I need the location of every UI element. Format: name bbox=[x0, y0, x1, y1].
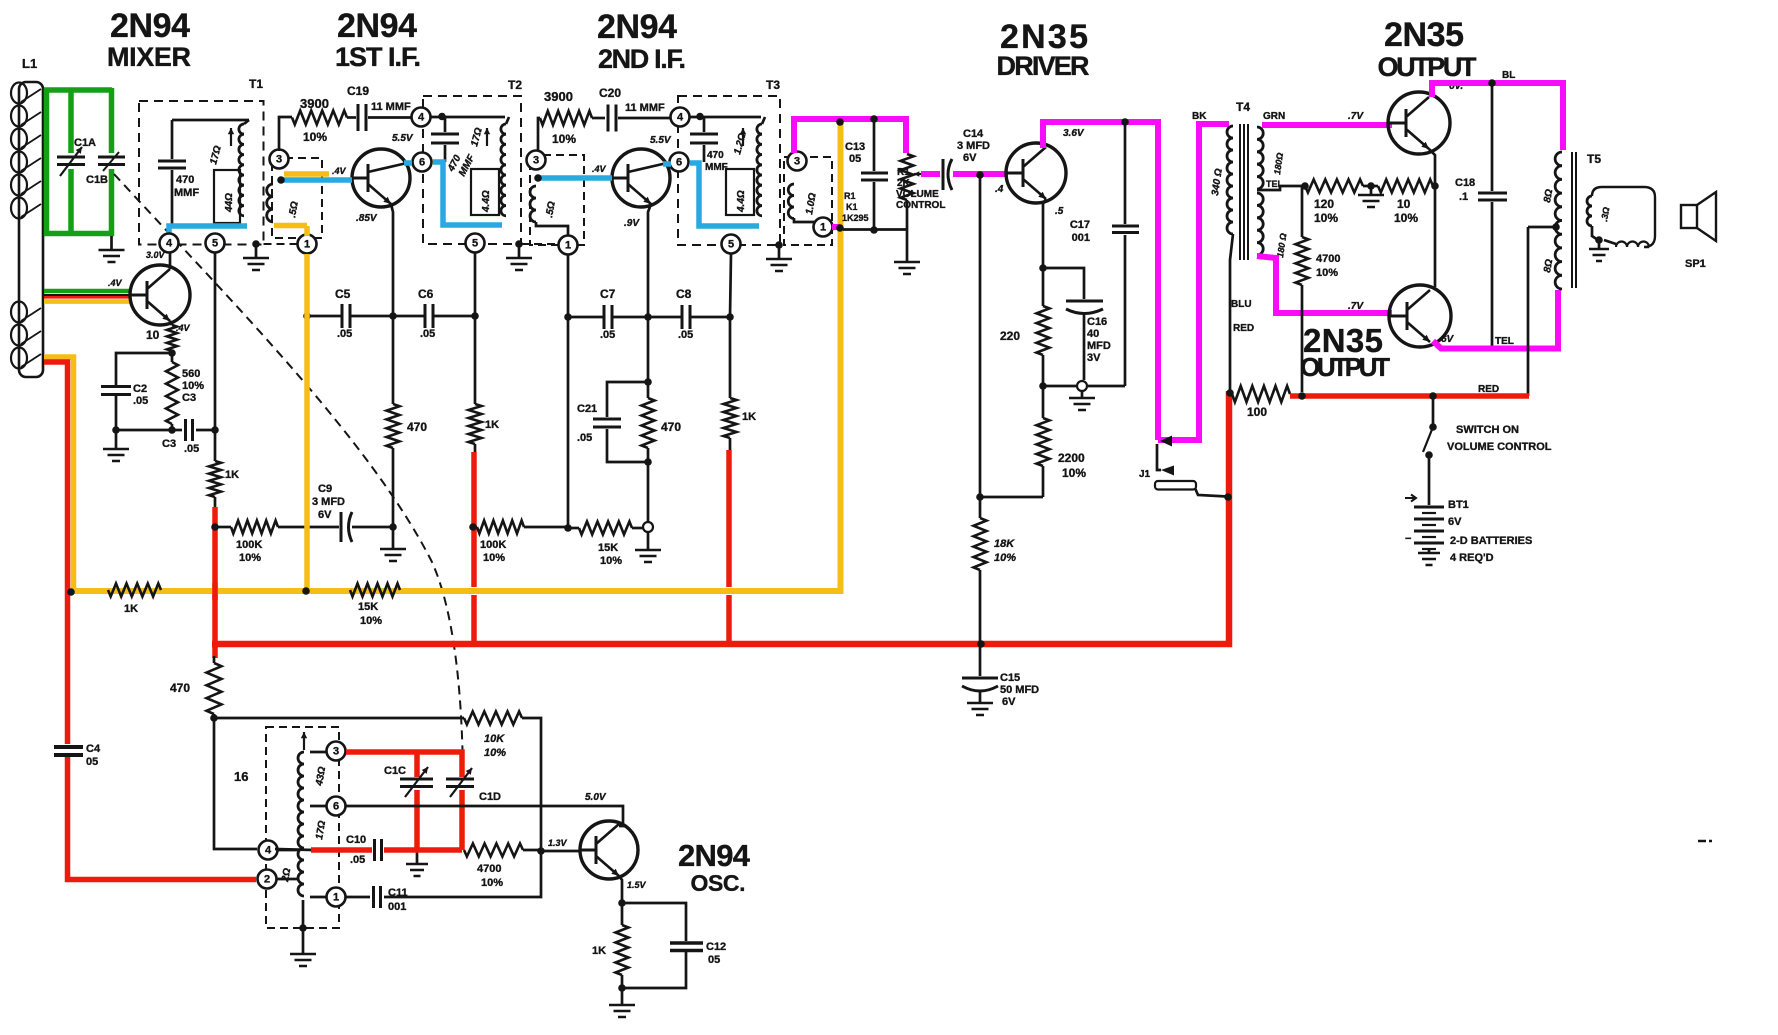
label 120 10% bbox=[1314, 197, 1338, 225]
svg-text:3.0V: 3.0V bbox=[146, 250, 166, 260]
label 17Ω (T1 primary) bbox=[208, 144, 224, 165]
label BT1 6V 2-D BATTERIES 4 REQD bbox=[1448, 499, 1532, 564]
svg-text:10%: 10% bbox=[484, 747, 506, 759]
label 2N94 1ST I.F. stage title bbox=[335, 7, 421, 72]
wire C13 top lead bbox=[873, 121, 876, 171]
label 5.0V (osc) bbox=[585, 792, 607, 803]
wire 18K to red bus bbox=[979, 570, 982, 644]
wire blue 1st IF collector to T2 bbox=[433, 162, 502, 225]
capacitor C20 11MMF bbox=[592, 105, 671, 132]
svg-text:15K: 15K bbox=[598, 542, 618, 554]
node jack/B- junction bbox=[1224, 493, 1232, 501]
svg-text:3 MFD: 3 MFD bbox=[312, 496, 345, 508]
wire red mid vertical over yellow bbox=[212, 583, 218, 600]
stray scan mark bbox=[1698, 840, 1712, 843]
node 560 bottom bbox=[168, 426, 176, 434]
node C2 bottom bbox=[112, 426, 120, 434]
svg-text:C3: C3 bbox=[182, 392, 196, 404]
wire red C1C lower lead bbox=[414, 790, 420, 850]
wire 2200 to base column bbox=[980, 496, 1043, 499]
wire coil bottom to shield bbox=[302, 900, 305, 953]
label 16 (osc coil) bbox=[234, 769, 248, 784]
svg-text:10%: 10% bbox=[994, 552, 1016, 564]
label C10 .05 bbox=[346, 834, 366, 866]
label 100K 10% bbox=[236, 539, 262, 564]
label 470 MMF (T1) bbox=[174, 174, 199, 199]
label T2 bbox=[508, 78, 522, 92]
svg-text:MMF: MMF bbox=[174, 187, 199, 199]
node C21 top junction bbox=[644, 378, 652, 386]
node C9/470/ground junction bbox=[389, 523, 397, 531]
node 120 left bbox=[1301, 182, 1309, 190]
jack J1 body bbox=[1155, 481, 1196, 490]
svg-text:OUTPUT: OUTPUT bbox=[1300, 352, 1390, 382]
svg-text:560: 560 bbox=[182, 368, 200, 380]
label 1.0Ω (T3 secondary) bbox=[804, 192, 819, 215]
wire 1K to red bbox=[474, 444, 477, 455]
node yellow bus left bbox=[67, 588, 75, 596]
label 15K 10% (2nd) bbox=[598, 542, 622, 567]
svg-text:2Ω: 2Ω bbox=[280, 867, 293, 883]
label 1K (mixer) bbox=[225, 469, 239, 481]
wire 1K bottom bbox=[621, 975, 624, 1004]
transistor Q3 2N94 2nd IF bbox=[612, 149, 670, 207]
svg-text:3: 3 bbox=[276, 154, 282, 166]
label C3 .05 bbox=[162, 438, 199, 455]
svg-text:470: 470 bbox=[661, 420, 681, 434]
label + battery bbox=[1405, 495, 1416, 502]
resistor 100K (2nd IF bias) bbox=[473, 521, 568, 534]
resistor 3900 (1st IF) bbox=[279, 111, 347, 152]
label C18 .1 bbox=[1455, 177, 1475, 203]
svg-text:1.2Ω: 1.2Ω bbox=[732, 132, 748, 156]
label C2 .05 bbox=[133, 383, 148, 407]
svg-text:120: 120 bbox=[1314, 197, 1334, 211]
svg-text:1.5V: 1.5V bbox=[627, 880, 647, 890]
node C18 top bbox=[1488, 79, 1496, 87]
label 2N94 MIXER stage title bbox=[107, 7, 194, 72]
capacitor C16 40MFD bbox=[1043, 268, 1103, 380]
svg-text:.3Ω: .3Ω bbox=[1599, 206, 1611, 222]
node osc emitter bbox=[618, 899, 626, 907]
label 470 (1st IF) bbox=[407, 420, 427, 434]
svg-text:.9V: .9V bbox=[624, 218, 640, 229]
label 2N94 2ND I.F. stage title bbox=[597, 8, 686, 74]
svg-text:J1: J1 bbox=[1139, 469, 1151, 480]
wire red stub below bus corner bbox=[212, 644, 218, 658]
node C6 right bbox=[471, 312, 479, 320]
resistor 10 10% bbox=[1363, 180, 1433, 193]
resistor 470 (osc feed) bbox=[207, 656, 222, 714]
wire driver emitter column bbox=[1043, 199, 1046, 306]
svg-text:4.4Ω: 4.4Ω bbox=[736, 190, 747, 213]
wire 100K to C9 bbox=[278, 526, 339, 529]
wire emitter to 470 par C21 bbox=[647, 317, 650, 398]
node osc base bbox=[537, 847, 545, 855]
label 18K 10% bbox=[994, 538, 1016, 564]
svg-text:5: 5 bbox=[472, 238, 478, 250]
label C1A bbox=[74, 137, 96, 149]
pin 6 of T3 bbox=[670, 153, 689, 172]
label 8Ω lower (T5) bbox=[1542, 258, 1555, 273]
svg-text:.7V: .7V bbox=[1348, 301, 1364, 312]
wire osc emitter bbox=[619, 876, 622, 925]
pin 6 of T2 bbox=[413, 153, 432, 172]
svg-text:.05: .05 bbox=[337, 328, 352, 340]
svg-text:R1: R1 bbox=[897, 167, 910, 178]
transformer T2 dashed box bbox=[423, 96, 521, 244]
capacitor C18 .1 bbox=[1478, 83, 1507, 346]
T1 secondary box bbox=[214, 170, 240, 223]
capacitor C19 11MMF bbox=[347, 104, 412, 131]
svg-text:3: 3 bbox=[794, 156, 800, 168]
svg-text:.4V: .4V bbox=[592, 164, 607, 174]
label 1.5V (osc emitter) bbox=[627, 880, 647, 890]
svg-text:6V: 6V bbox=[318, 509, 332, 521]
node 220 bottom bbox=[1039, 382, 1047, 390]
label 4.4Ω (T3 secondary) bbox=[736, 190, 747, 213]
label 470 (osc feed) bbox=[170, 681, 190, 695]
wire magenta Q6 collector rail bbox=[1432, 83, 1563, 150]
wire osc base bbox=[541, 850, 580, 853]
label .4V (2nd IF base) bbox=[592, 164, 607, 174]
wire Q6/Q7 collector link bbox=[1434, 186, 1437, 287]
svg-text:5: 5 bbox=[728, 239, 734, 251]
battery BT1 bbox=[1414, 507, 1444, 549]
terminal C16 open circle bbox=[1077, 381, 1087, 391]
svg-text:C8: C8 bbox=[676, 287, 692, 301]
node emitter/C7 junction bbox=[644, 313, 652, 321]
svg-text:C3: C3 bbox=[162, 438, 176, 450]
svg-text:.4: .4 bbox=[995, 184, 1004, 195]
svg-text:.5Ω: .5Ω bbox=[287, 201, 301, 219]
wire jack sleeve to B- rail bbox=[1195, 488, 1227, 497]
svg-text:.05: .05 bbox=[600, 329, 615, 341]
svg-text:RED: RED bbox=[1478, 384, 1499, 395]
svg-text:05: 05 bbox=[849, 153, 861, 165]
label T3 bbox=[766, 78, 780, 92]
wire 10K to base column bbox=[522, 718, 541, 849]
ground volume control bbox=[894, 262, 920, 274]
svg-text:40: 40 bbox=[1087, 328, 1099, 340]
label 1.7Ω (T2 primary) bbox=[469, 126, 485, 147]
wire red B+ rail bbox=[1290, 393, 1529, 399]
svg-text:2: 2 bbox=[264, 874, 270, 886]
svg-text:100: 100 bbox=[1247, 405, 1267, 419]
pin 6 of osc coil bbox=[310, 797, 346, 816]
svg-text:C18: C18 bbox=[1455, 177, 1475, 189]
jack J1 contact arrow upper bbox=[1160, 436, 1172, 447]
label 11 MMF bbox=[371, 101, 411, 113]
pin 5 of T3 bbox=[722, 235, 741, 254]
label C4 .05 bbox=[86, 743, 101, 768]
svg-text:BLU: BLU bbox=[1231, 299, 1252, 310]
wire T1 top rail bbox=[172, 119, 249, 122]
wire T2 pin5 column bbox=[474, 252, 477, 404]
pin 1 of T2 bbox=[559, 236, 578, 255]
node 15K left bbox=[564, 524, 572, 532]
svg-text:10%: 10% bbox=[182, 380, 204, 392]
wire 470 to C9 node bbox=[392, 448, 395, 548]
svg-text:1K: 1K bbox=[592, 945, 606, 957]
label C14 3 MFD 6V bbox=[957, 128, 990, 164]
wire C11 to base column bbox=[384, 851, 541, 897]
svg-text:17Ω: 17Ω bbox=[208, 144, 224, 165]
svg-text:C16: C16 bbox=[1087, 316, 1107, 328]
svg-text:1: 1 bbox=[333, 892, 339, 904]
wire magenta driver collector rail bbox=[1043, 122, 1158, 440]
svg-text:001: 001 bbox=[388, 901, 406, 913]
node C13 junctions bbox=[870, 115, 878, 234]
capacitor C1B (variable tuning) bbox=[98, 152, 125, 171]
svg-text:10%: 10% bbox=[303, 130, 327, 144]
dashed gang line (tuning capacitor link) bbox=[114, 174, 463, 776]
svg-text:10%: 10% bbox=[483, 552, 505, 564]
resistor 1K (2nd IF bias) bbox=[724, 398, 737, 438]
pin 5 of T2 bbox=[466, 234, 485, 253]
svg-text:.05: .05 bbox=[420, 328, 435, 340]
wire green loop top (antenna to C1A/C1B) bbox=[44, 87, 112, 93]
svg-text:50 MFD: 50 MFD bbox=[1000, 684, 1039, 696]
label 470 (2nd IF) bbox=[661, 420, 681, 434]
svg-text:2N94: 2N94 bbox=[597, 8, 681, 46]
svg-text:6V: 6V bbox=[1002, 696, 1016, 708]
svg-text:C21: C21 bbox=[577, 403, 597, 415]
pin 1 of T1 bbox=[298, 235, 317, 254]
ground C15 bbox=[967, 703, 993, 715]
pin 1 of osc coil bbox=[310, 888, 346, 907]
svg-text:470: 470 bbox=[707, 150, 724, 161]
svg-text:470: 470 bbox=[176, 174, 194, 186]
svg-text:10%: 10% bbox=[600, 555, 622, 567]
svg-text:.05: .05 bbox=[184, 443, 199, 455]
svg-text:1: 1 bbox=[820, 222, 826, 234]
label C8 .05 bbox=[676, 287, 693, 341]
transformer T5 core bbox=[1572, 152, 1576, 288]
wire blue 2nd IF collector to T3 bbox=[690, 163, 759, 226]
svg-text:17Ω: 17Ω bbox=[469, 126, 485, 147]
wire osc pin4 to tank bbox=[275, 849, 313, 850]
ground oscillator coil bbox=[290, 954, 316, 966]
node C7 left bbox=[564, 313, 572, 321]
pin 3 of T2 bbox=[527, 151, 546, 170]
label C5 .05 bbox=[335, 287, 352, 340]
wire C2 to ground node bbox=[116, 396, 172, 430]
capacitor C17 .001 bbox=[1112, 122, 1139, 386]
node osc coil shield bbox=[299, 924, 307, 932]
label BL bbox=[1502, 70, 1515, 81]
svg-text:VOLUME CONTROL: VOLUME CONTROL bbox=[1447, 441, 1552, 453]
svg-text:16: 16 bbox=[234, 769, 248, 784]
wire T2 top rail bbox=[430, 113, 505, 121]
capacitor C15 50MFD bbox=[962, 647, 998, 702]
svg-text:T2: T2 bbox=[508, 78, 522, 92]
svg-text:2200: 2200 bbox=[1058, 451, 1085, 465]
label C1D bbox=[479, 791, 501, 803]
label 470 MMF (T2) bbox=[445, 152, 477, 178]
resistor 1K AVC bbox=[108, 584, 161, 597]
jack J1 contact arrow lower bbox=[1161, 466, 1174, 476]
wire magenta C14 to driver base bbox=[953, 171, 1008, 177]
node C5 left on yellow bbox=[303, 312, 311, 320]
T3 secondary box bbox=[726, 169, 754, 215]
label 1.2Ω (T3 primary) bbox=[732, 132, 748, 156]
wire magenta T3 pin1 out bbox=[832, 224, 840, 230]
svg-text:C6: C6 bbox=[418, 287, 434, 301]
label T1 bbox=[249, 77, 263, 91]
svg-text:SWITCH ON: SWITCH ON bbox=[1456, 424, 1519, 436]
svg-text:.4V: .4V bbox=[176, 323, 191, 333]
svg-text:44Ω: 44Ω bbox=[224, 193, 235, 213]
svg-text:10%: 10% bbox=[481, 877, 503, 889]
pin 2 of osc coil bbox=[258, 870, 299, 889]
svg-text:4: 4 bbox=[265, 845, 272, 857]
label 100 (B+) bbox=[1247, 405, 1267, 419]
node voice coil ground node bbox=[1595, 236, 1603, 244]
pin 4 of osc coil bbox=[259, 841, 299, 860]
wire blue 2nd IF base bbox=[538, 175, 612, 181]
node 100K-2 left bbox=[469, 523, 477, 531]
svg-text:470: 470 bbox=[170, 681, 190, 695]
svg-text:T1: T1 bbox=[249, 77, 263, 91]
svg-text:C19: C19 bbox=[347, 84, 369, 98]
wire blue 2nd IF collector tick bbox=[663, 161, 671, 167]
ground 1st IF emitter bbox=[380, 549, 406, 561]
pin 3 of osc coil bbox=[310, 742, 346, 761]
wire 1st IF emitter column top bbox=[391, 204, 393, 316]
capacitor C1A (variable tuning) bbox=[57, 147, 85, 176]
inductor T3 secondary pickup coil bbox=[788, 184, 794, 219]
label 5.5V (2nd IF) bbox=[650, 135, 672, 146]
svg-text:MMF: MMF bbox=[705, 162, 728, 173]
wire C9 to emitter column bbox=[352, 526, 393, 529]
wire red tank bottom right bbox=[384, 847, 462, 853]
label 470 MMF (T3) bbox=[705, 150, 728, 173]
svg-text:T4: T4 bbox=[1236, 100, 1250, 114]
node emitter/C5 junction bbox=[389, 312, 397, 320]
svg-text:1K: 1K bbox=[225, 469, 239, 481]
resistor 560 ohm bbox=[166, 353, 178, 430]
wire 470 to terminal bbox=[647, 448, 650, 521]
wire T4 TEL tap bbox=[1257, 186, 1303, 190]
svg-text:6V: 6V bbox=[1448, 516, 1462, 528]
resistor 10K (osc) bbox=[464, 712, 522, 725]
resistor 1K mixer bias bbox=[209, 461, 221, 497]
wire red C1C upper lead bbox=[414, 752, 420, 777]
wire T5 center tap to B+ (TEL) bbox=[1528, 227, 1553, 396]
node emitter junction upper bbox=[1431, 182, 1439, 190]
wire switch feed bbox=[1432, 396, 1435, 424]
wire osc collector bbox=[345, 806, 623, 826]
wire osc pin4 feed bbox=[214, 718, 257, 849]
svg-text:.05: .05 bbox=[133, 395, 148, 407]
svg-text:BL: BL bbox=[1502, 70, 1515, 81]
label VOLUME CONTROL bbox=[1447, 441, 1552, 453]
label .5Ω (T2 secondary) bbox=[544, 201, 558, 219]
node 470 bottom bbox=[644, 458, 652, 466]
inductor T2 primary coil bbox=[484, 117, 509, 216]
wire voice coil loop bbox=[1592, 187, 1655, 247]
svg-text:100K: 100K bbox=[480, 539, 506, 551]
capacitor 470 MMF inside T1 bbox=[158, 120, 186, 226]
terminal open circle (2nd IF) bbox=[643, 522, 653, 532]
label C12 .05 bbox=[706, 941, 726, 966]
resistor 4700 (osc base) bbox=[464, 844, 541, 857]
label 6V. (Q6 collector) bbox=[1449, 81, 1463, 92]
ground battery bbox=[1418, 549, 1440, 565]
svg-text:.05: .05 bbox=[350, 854, 365, 866]
voice coil curls bbox=[1604, 240, 1649, 247]
wire yellow antenna lower tap bbox=[44, 357, 74, 591]
svg-text:2N35: 2N35 bbox=[1384, 16, 1468, 54]
wire 2nd IF emitter column bbox=[648, 204, 651, 317]
resistor 470 (2nd IF emitter) bbox=[642, 398, 655, 448]
svg-text:6V: 6V bbox=[963, 152, 977, 164]
wire emitter node left bbox=[116, 353, 172, 385]
resistor 15K (2nd IF) bbox=[568, 522, 643, 535]
label C17 001 bbox=[1070, 219, 1090, 244]
pin 3 of T1 bbox=[270, 150, 289, 169]
label R1 2K VOLUME CONTROL bbox=[896, 167, 945, 211]
capacitor C7 bbox=[568, 305, 648, 329]
inductor T1 primary coil bbox=[228, 120, 249, 216]
wire red B- rail left vertical bbox=[212, 507, 218, 648]
T3 secondary dashed box bbox=[784, 157, 832, 245]
svg-text:6: 6 bbox=[333, 801, 339, 813]
svg-text:6V: 6V bbox=[1441, 334, 1455, 345]
svg-text:CONTROL: CONTROL bbox=[896, 200, 945, 211]
label C1B bbox=[86, 174, 108, 186]
label C1C bbox=[384, 765, 406, 777]
svg-text:RED: RED bbox=[1233, 323, 1254, 334]
wire osc top rail bbox=[214, 714, 464, 718]
ground voice coil bbox=[1589, 240, 1609, 261]
label .4V mixer base bbox=[108, 278, 123, 288]
node T2... blue base node bbox=[277, 176, 285, 184]
label 17Ω (osc) bbox=[314, 820, 328, 841]
resistor 470 (1st IF emitter) bbox=[387, 316, 400, 448]
inductor T4 secondary lower bbox=[1257, 193, 1263, 255]
wire green loop middle vertical (C1A leads) bbox=[68, 88, 74, 235]
capacitor C4 bbox=[54, 747, 83, 755]
label RED (B+ rail) bbox=[1478, 384, 1499, 395]
label 4.4Ω (T2 secondary) bbox=[481, 190, 492, 213]
svg-text:3 MFD: 3 MFD bbox=[957, 140, 990, 152]
wire magenta jack to T4 bbox=[1199, 124, 1229, 443]
capacitor C13 bbox=[861, 173, 888, 180]
label 43Ω (osc) bbox=[314, 766, 328, 788]
capacitor C6 bbox=[393, 304, 475, 328]
label J1 bbox=[1139, 469, 1151, 480]
svg-text:05: 05 bbox=[708, 954, 720, 966]
svg-text:L1: L1 bbox=[22, 56, 37, 71]
label 4700 10% (output) bbox=[1316, 253, 1340, 279]
label 2N94 OSC. stage title bbox=[678, 838, 754, 896]
svg-text:2K: 2K bbox=[897, 178, 911, 189]
resistor 120 10% bbox=[1305, 180, 1363, 193]
svg-text:4700: 4700 bbox=[477, 863, 501, 875]
svg-text:8Ω: 8Ω bbox=[1542, 258, 1555, 273]
svg-text:15K: 15K bbox=[358, 601, 378, 613]
label L1 bbox=[22, 56, 37, 71]
node 100K left on rail bbox=[211, 523, 219, 531]
wire switch to battery bbox=[1428, 455, 1431, 505]
svg-text:340 Ω: 340 Ω bbox=[1210, 168, 1225, 197]
node AVC takeoff bbox=[836, 118, 844, 232]
svg-text:C14: C14 bbox=[963, 128, 984, 140]
capacitor C2 bbox=[101, 387, 131, 395]
inductor T5 secondary (voice-coil side) bbox=[1587, 196, 1592, 226]
